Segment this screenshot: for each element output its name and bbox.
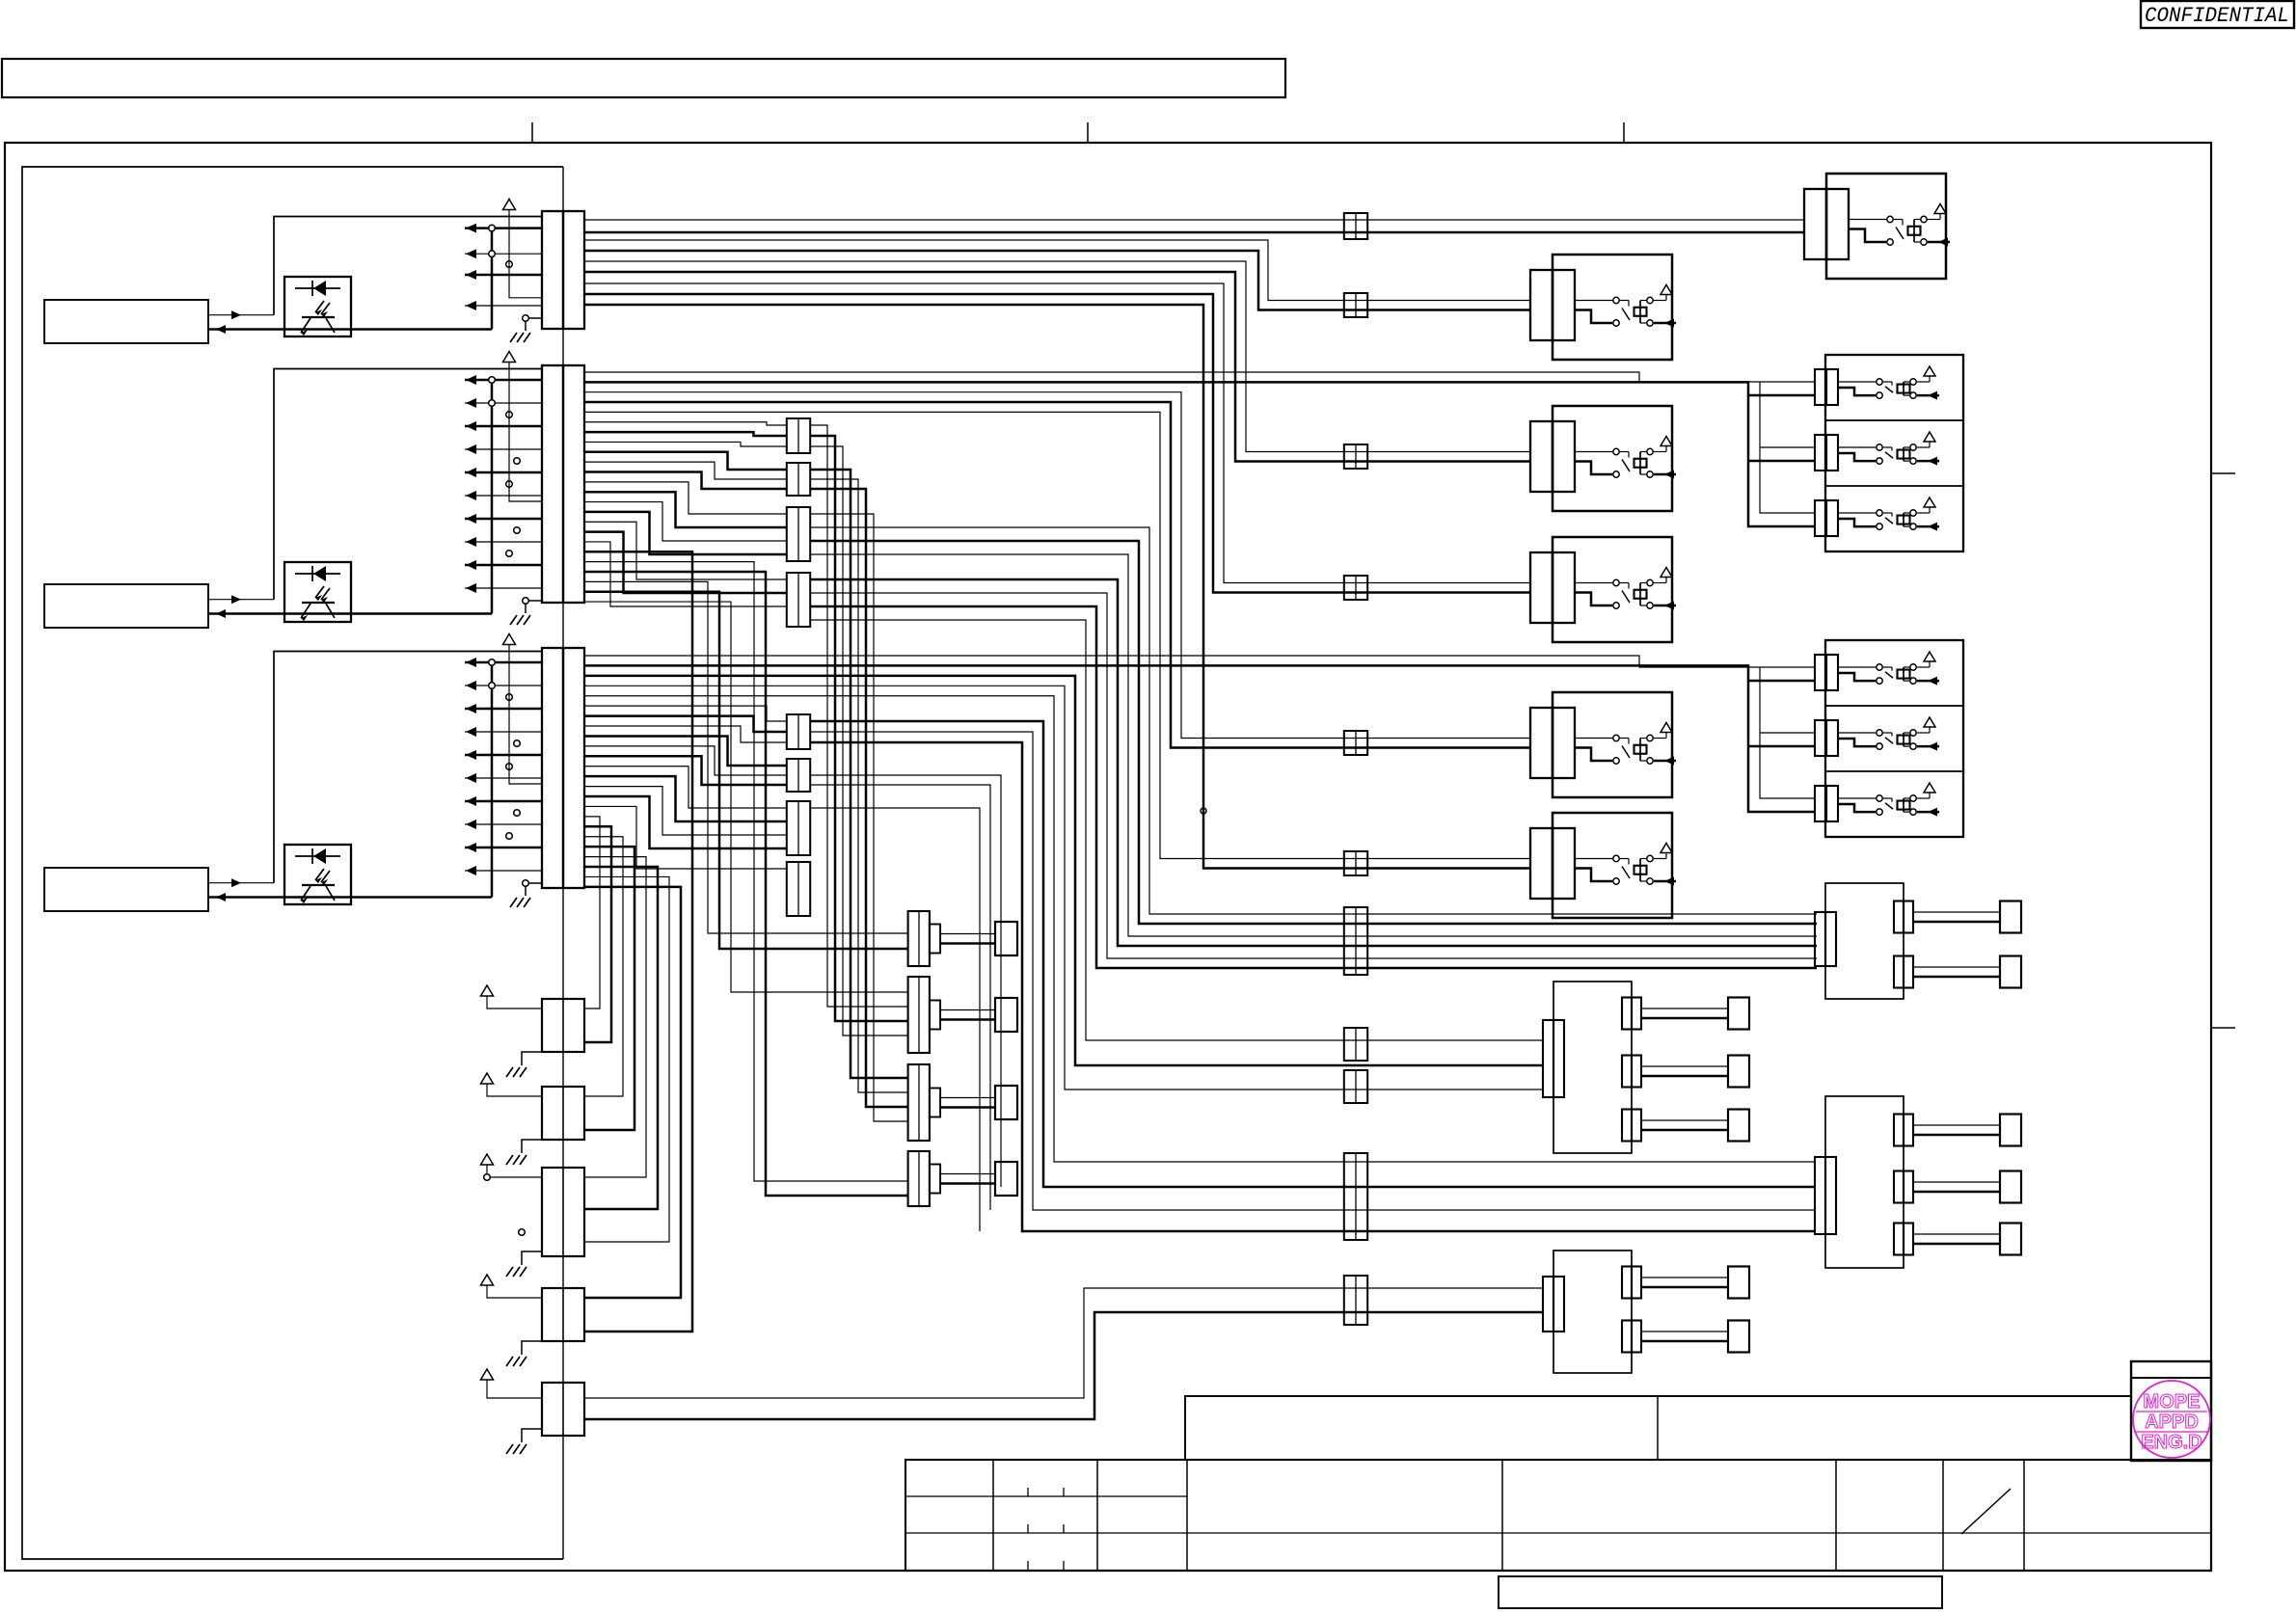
inline connector P34 <box>787 862 810 916</box>
wire <box>810 470 907 1078</box>
wire <box>584 602 907 992</box>
approval stamp seal <box>2133 1381 2210 1458</box>
wire <box>810 479 907 1092</box>
inline connector P21 <box>787 418 810 453</box>
wire <box>584 283 1531 583</box>
wire <box>584 837 623 1096</box>
wire <box>584 562 907 1181</box>
sensor switch SW1 <box>1804 174 1950 279</box>
wire <box>1760 446 1814 448</box>
wire <box>584 272 1531 462</box>
wire <box>584 392 1531 739</box>
junction dot KC <box>484 1174 526 1236</box>
board connector KB <box>542 1087 584 1140</box>
termination module T1 <box>908 911 1017 966</box>
wire <box>810 721 1814 1187</box>
wire <box>584 686 1542 1089</box>
wire <box>584 847 635 1130</box>
power triangle KE <box>481 1369 543 1398</box>
board connector J3 <box>542 648 584 888</box>
junction dots group 3 <box>489 659 521 840</box>
approval stamp box <box>2131 1361 2211 1461</box>
wire <box>584 240 1531 301</box>
wire <box>1748 460 1814 463</box>
board connector J2 <box>542 365 584 603</box>
wire <box>584 382 1814 395</box>
power triangle group 1 <box>503 200 543 298</box>
title block header <box>1185 1396 2131 1460</box>
ground group 1 <box>510 315 542 342</box>
wire <box>810 425 907 1007</box>
sensor return arrows group 2 <box>465 375 542 593</box>
wire <box>584 251 1531 310</box>
diagonal slash cell <box>1961 1489 2011 1534</box>
wire <box>810 514 907 1121</box>
opto-isolator PC1 <box>284 277 351 336</box>
power triangle group 2 <box>503 352 543 502</box>
frame tick top 2 <box>1087 122 1089 143</box>
inline connector P31 <box>787 714 810 749</box>
wire <box>810 742 1814 1231</box>
board connector KC <box>542 1168 584 1256</box>
inline connector on SW1 cable <box>1344 213 1367 239</box>
wire <box>584 305 1531 869</box>
inline connector P24 <box>787 573 810 627</box>
wire <box>810 436 907 1021</box>
wire <box>584 219 1804 221</box>
inline connector on SW3 cable <box>1344 444 1367 469</box>
wire <box>584 294 1531 593</box>
wire loop group 2 <box>208 369 542 619</box>
wire <box>810 554 1817 936</box>
sensor return arrows group 3 <box>465 658 542 875</box>
bottom reference box <box>1499 1576 1942 1608</box>
title banner box <box>2 59 1285 97</box>
junction dots group 1 <box>489 225 513 267</box>
inline connector on FB3 cable <box>1344 1276 1367 1325</box>
wire <box>1748 745 1814 748</box>
wire <box>810 785 990 1210</box>
sensor switch SW2 <box>1530 255 1676 360</box>
inline connector on SW4 cable <box>1344 576 1367 600</box>
inline connector on SW2 cable <box>1344 293 1367 317</box>
svg-text:APPD: APPD <box>2145 1412 2199 1433</box>
wire <box>1760 382 1814 513</box>
termination module T3 <box>908 1064 1017 1141</box>
board connector J1 <box>542 211 584 329</box>
wire <box>584 656 1814 667</box>
external unit label box U2 <box>44 584 208 628</box>
wire loop group 3 <box>208 652 542 902</box>
power triangle KD <box>481 1275 543 1298</box>
junction dot bundle <box>1201 808 1206 814</box>
ground KE <box>506 1429 542 1454</box>
frame tick top 3 <box>1623 122 1625 143</box>
wire <box>584 867 658 1209</box>
wire <box>584 826 611 1042</box>
junction box FB4 <box>1815 883 2021 999</box>
opto-isolator PC3 <box>284 845 351 904</box>
wire <box>584 581 907 933</box>
wire <box>584 551 692 1332</box>
board connector KD <box>542 1288 584 1341</box>
wire <box>810 446 907 1036</box>
wire <box>584 261 1531 452</box>
wire <box>810 775 1001 1187</box>
wire <box>584 402 1531 747</box>
inline connector on FB2 cable <box>1344 1153 1367 1240</box>
wire <box>810 808 980 1231</box>
wire <box>810 527 1817 914</box>
wire <box>1760 732 1814 734</box>
wire <box>584 572 907 1196</box>
ground KB <box>506 1140 542 1165</box>
termination module T2 <box>908 977 1017 1053</box>
wire <box>584 412 1531 858</box>
ground KC <box>506 1251 542 1277</box>
inline connector P32 <box>787 759 810 792</box>
termination module T4 <box>908 1151 1017 1206</box>
wire <box>810 606 1817 968</box>
junction box FB3 <box>1543 1251 1749 1373</box>
ground group 2 <box>510 598 542 625</box>
inline connector P33 <box>787 801 810 855</box>
power triangle KB <box>481 1073 543 1096</box>
wire <box>1748 681 1814 812</box>
wire <box>810 732 1814 1210</box>
fan wires group 2 <box>584 422 787 606</box>
opto-isolator PC2 <box>284 562 351 622</box>
inline connector on SW5 cable <box>1344 731 1367 755</box>
svg-text:CONFIDENTIAL: CONFIDENTIAL <box>2145 4 2289 28</box>
wire <box>584 696 1814 1162</box>
ground KD <box>506 1341 542 1366</box>
junction box FB1 <box>1543 982 1749 1153</box>
inline connector on FB1 cable <box>1344 1028 1367 1103</box>
sensor switch SW6 <box>1530 813 1676 918</box>
sensor switch SW3 <box>1530 406 1676 511</box>
fan wires group 3 <box>584 706 787 869</box>
wire <box>1760 667 1814 798</box>
svg-text:ENG.D: ENG.D <box>2141 1432 2201 1453</box>
wire <box>1748 395 1814 526</box>
wire <box>584 817 600 1009</box>
power triangle KA <box>481 985 543 1009</box>
frame tick right 1 <box>2211 472 2235 474</box>
wire <box>584 231 1804 234</box>
inline connector P23 <box>787 507 810 561</box>
wire <box>810 593 1817 958</box>
ground KA <box>506 1052 542 1077</box>
inline connector on SW6 cable <box>1344 851 1367 875</box>
wire <box>584 372 1814 382</box>
external unit label box U1 <box>44 300 208 343</box>
sensor switch SW4 <box>1530 537 1676 642</box>
wire <box>810 620 1542 1040</box>
wire <box>810 489 907 1107</box>
board connector KE <box>542 1383 584 1436</box>
CONFIDENTIAL stamp box <box>2141 1 2294 28</box>
board connector KA <box>542 999 584 1052</box>
sensor switch stack TS1 <box>1815 355 1963 551</box>
wire <box>810 579 1817 946</box>
sensor return arrows group 1 <box>465 224 542 310</box>
junction box FB2 <box>1815 1096 2021 1268</box>
wire <box>810 541 1817 924</box>
controller board outline <box>22 167 563 1559</box>
inline connector P22 <box>787 463 810 496</box>
power triangle group 3 <box>503 634 543 785</box>
wire <box>584 1288 1542 1398</box>
ground group 3 <box>510 880 542 907</box>
wire <box>584 676 1542 1065</box>
title block table <box>905 1460 2211 1571</box>
wire <box>584 592 907 949</box>
wire <box>584 876 669 1242</box>
frame tick top 1 <box>531 122 533 143</box>
sensor switch SW5 <box>1530 692 1676 797</box>
sensor switch stack TS2 <box>1815 640 1963 837</box>
wire <box>584 1312 1542 1419</box>
wire <box>584 665 1814 681</box>
inline connector on FB4 cable <box>1344 907 1367 975</box>
power triangle KC <box>481 1154 543 1177</box>
wire <box>584 887 681 1298</box>
date separators <box>1028 1488 1064 1570</box>
svg-text:MOPE: MOPE <box>2144 1391 2201 1412</box>
wire <box>584 857 646 1177</box>
junction dots group 2 <box>489 377 521 557</box>
external unit label box U3 <box>44 868 208 911</box>
wire loop group 1 <box>208 217 542 335</box>
frame tick right 2 <box>2211 1027 2235 1029</box>
